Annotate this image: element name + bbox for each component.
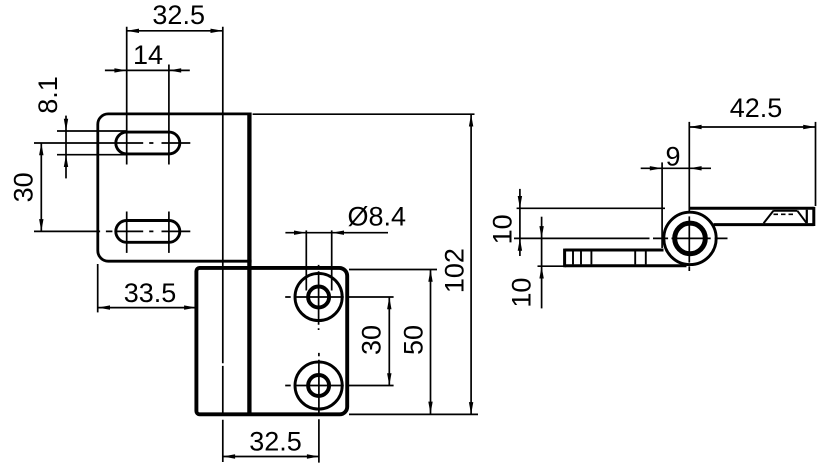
side view: left leaf slot edge tick 1 — [572, 251, 574, 264]
svg-text:30: 30 — [9, 172, 39, 202]
dimension 42.5: left arrow — [689, 125, 701, 129]
dimension 10 lower: extension line — [538, 265, 564, 267]
front view: hinge knuckle edge (right edge of left plate) — [247, 113, 251, 416]
dimension 8.1: upper extension line — [57, 130, 127, 132]
dimension 9: dim line — [641, 167, 711, 169]
hole 1 counterbore outer circle — [295, 273, 342, 320]
side view: right leaf end inner line — [806, 210, 808, 224]
side view: countersink top line — [773, 210, 797, 212]
dimension 9: right arrow — [689, 166, 701, 170]
dimension 30 right: top arrow — [387, 297, 391, 309]
side view: countersink hidden line — [774, 213, 794, 215]
dimension 102: bottom arrow — [469, 402, 473, 414]
dimension 8.1: bottom arrow — [64, 155, 68, 167]
dimension 10 lower: bottom arrow — [539, 266, 543, 278]
svg-text:10: 10 — [507, 278, 537, 308]
svg-text:10: 10 — [488, 214, 518, 244]
dimension 42.5: dim line — [689, 126, 815, 128]
slot hole 2 (obround) — [116, 221, 180, 243]
dimension 33.5: left arrow — [98, 305, 110, 309]
dimension 50: top extension line — [349, 269, 437, 271]
side view: countersink left diagonal — [764, 211, 774, 223]
side view: left leaf slot edge tick 4 — [634, 251, 636, 264]
dimension 33.5: dim line — [98, 307, 197, 309]
side view: right leaf top edge — [689, 207, 814, 210]
dimension 50: top arrow — [428, 270, 432, 282]
svg-text:33.5: 33.5 — [124, 278, 177, 308]
svg-text:102: 102 — [440, 248, 470, 293]
dimension 102: bottom extension line — [349, 413, 478, 415]
svg-text:8.1: 8.1 — [33, 76, 63, 114]
dimension 30 right: bottom arrow — [387, 373, 391, 385]
dimension 9: left extension line — [661, 162, 663, 248]
side view: left leaf slot edge tick 2 — [580, 251, 582, 264]
hole 2 counterbore outer circle — [295, 362, 342, 409]
dimension 10 lower: top arrow — [539, 226, 543, 238]
dimension 32.5 bottom: right arrow — [307, 454, 319, 458]
side view: left leaf slot edge tick 3 — [590, 251, 592, 264]
front view: lower mounting plate outline — [196, 268, 347, 414]
dimension 42.5: right extension line — [815, 122, 817, 206]
hole 2 vertical centerline (joins ext of bottom dim 32.5) — [318, 353, 320, 463]
dimension 8.1: top arrow — [64, 119, 68, 131]
side view: countersink right diagonal — [797, 211, 806, 223]
hole 2 horizontal centerline (ext of dim 30) — [285, 385, 393, 387]
side view: pin bore ring — [675, 223, 706, 254]
svg-text:9: 9 — [665, 142, 680, 172]
dimension 10 upper: top arrow — [518, 196, 522, 208]
svg-text:42.5: 42.5 — [730, 93, 783, 123]
dimension 8.1: dim line — [65, 116, 67, 179]
side view: right leaf bottom edge — [714, 223, 814, 226]
dimension 14: left arrow — [114, 68, 126, 72]
dimension 32.5 bottom: dim line — [223, 456, 319, 458]
side view: left leaf bottom edge — [565, 264, 687, 267]
hole 1 bore circle Ø8.4 — [308, 287, 329, 308]
dimension 33.5: left extension line — [97, 264, 99, 312]
side view: left leaf end cap — [563, 249, 566, 268]
side view: left leaf top edge — [565, 249, 664, 252]
hinge pin centerline (front view) — [222, 27, 224, 462]
side view: pin vertical centerline / ext of dims 42.5 and 9 — [688, 122, 690, 213]
svg-text:30: 30 — [357, 325, 387, 355]
dimension 14: right arrow — [169, 68, 181, 72]
dimension 102: top extension line — [253, 113, 475, 115]
dimension 30 left: top arrow — [39, 143, 43, 155]
svg-text:32.5: 32.5 — [152, 0, 205, 30]
dimension 10 upper: extension line — [517, 207, 665, 209]
side view: pin horizontal centerline — [514, 237, 728, 239]
dimension 50: bottom arrow — [428, 402, 432, 414]
dimension 42.5: right arrow — [803, 125, 815, 129]
dimension 102: dim line — [470, 114, 472, 414]
dimension Ø8.4: right extension line — [331, 230, 333, 290]
side view: knuckle outer circle — [664, 212, 716, 264]
svg-text:Ø8.4: Ø8.4 — [348, 202, 407, 232]
dimension 32.5 top: dim line — [127, 30, 223, 32]
dimension 32.5 top: right arrow — [211, 29, 223, 33]
dimension 102: top arrow — [469, 114, 473, 126]
front view: left mounting plate outline — [98, 114, 252, 261]
dimension 10 upper: dim line — [519, 189, 521, 256]
dimension 33.5: right arrow — [184, 305, 196, 309]
side view: left leaf slot edge tick 5 — [645, 251, 647, 264]
dimension 32.5 bottom: left arrow — [223, 454, 235, 458]
dimension Ø8.4: dim line — [285, 232, 388, 234]
hole 2 bore circle Ø8.4 — [308, 375, 329, 396]
dimension 10 lower: dim line — [541, 217, 543, 309]
dimension Ø8.4: left arrow — [294, 231, 306, 235]
hole 1 vertical centerline — [318, 265, 320, 330]
side view: right leaf end cap — [812, 207, 815, 226]
dimension 8.1: lower extension line — [57, 154, 127, 156]
slot 1 left center vertical (crosshair / ext of dim 14 and 32.5) — [126, 27, 128, 165]
slot 2 horizontal centerline — [34, 230, 190, 232]
hole 1 horizontal centerline (ext of dim 30) — [285, 296, 393, 298]
dimension 30 right: dim line — [388, 297, 390, 386]
slot 1 right center vertical (crosshair / ext of dim 14) — [168, 65, 170, 165]
dimension 9: left arrow — [650, 166, 662, 170]
dimension 10 upper: bottom arrow — [518, 238, 522, 250]
dimension 30 left: dim line — [40, 143, 42, 231]
slot hole 1 (obround) — [116, 132, 180, 154]
dimension 30 left: bottom arrow — [39, 219, 43, 231]
slot 2 right center vertical crosshair — [168, 212, 170, 253]
slot 2 left center vertical crosshair — [126, 212, 128, 253]
dimension 14: dim line — [105, 69, 190, 71]
dimension 32.5 top: left arrow — [127, 29, 139, 33]
svg-text:50: 50 — [398, 325, 428, 355]
slot 1 horizontal centerline — [34, 142, 190, 144]
svg-text:14: 14 — [133, 40, 163, 70]
dimension Ø8.4: left extension line — [305, 230, 307, 290]
dimension Ø8.4: right arrow — [332, 231, 344, 235]
svg-text:32.5: 32.5 — [249, 427, 302, 457]
dimension 50: dim line — [430, 270, 432, 414]
